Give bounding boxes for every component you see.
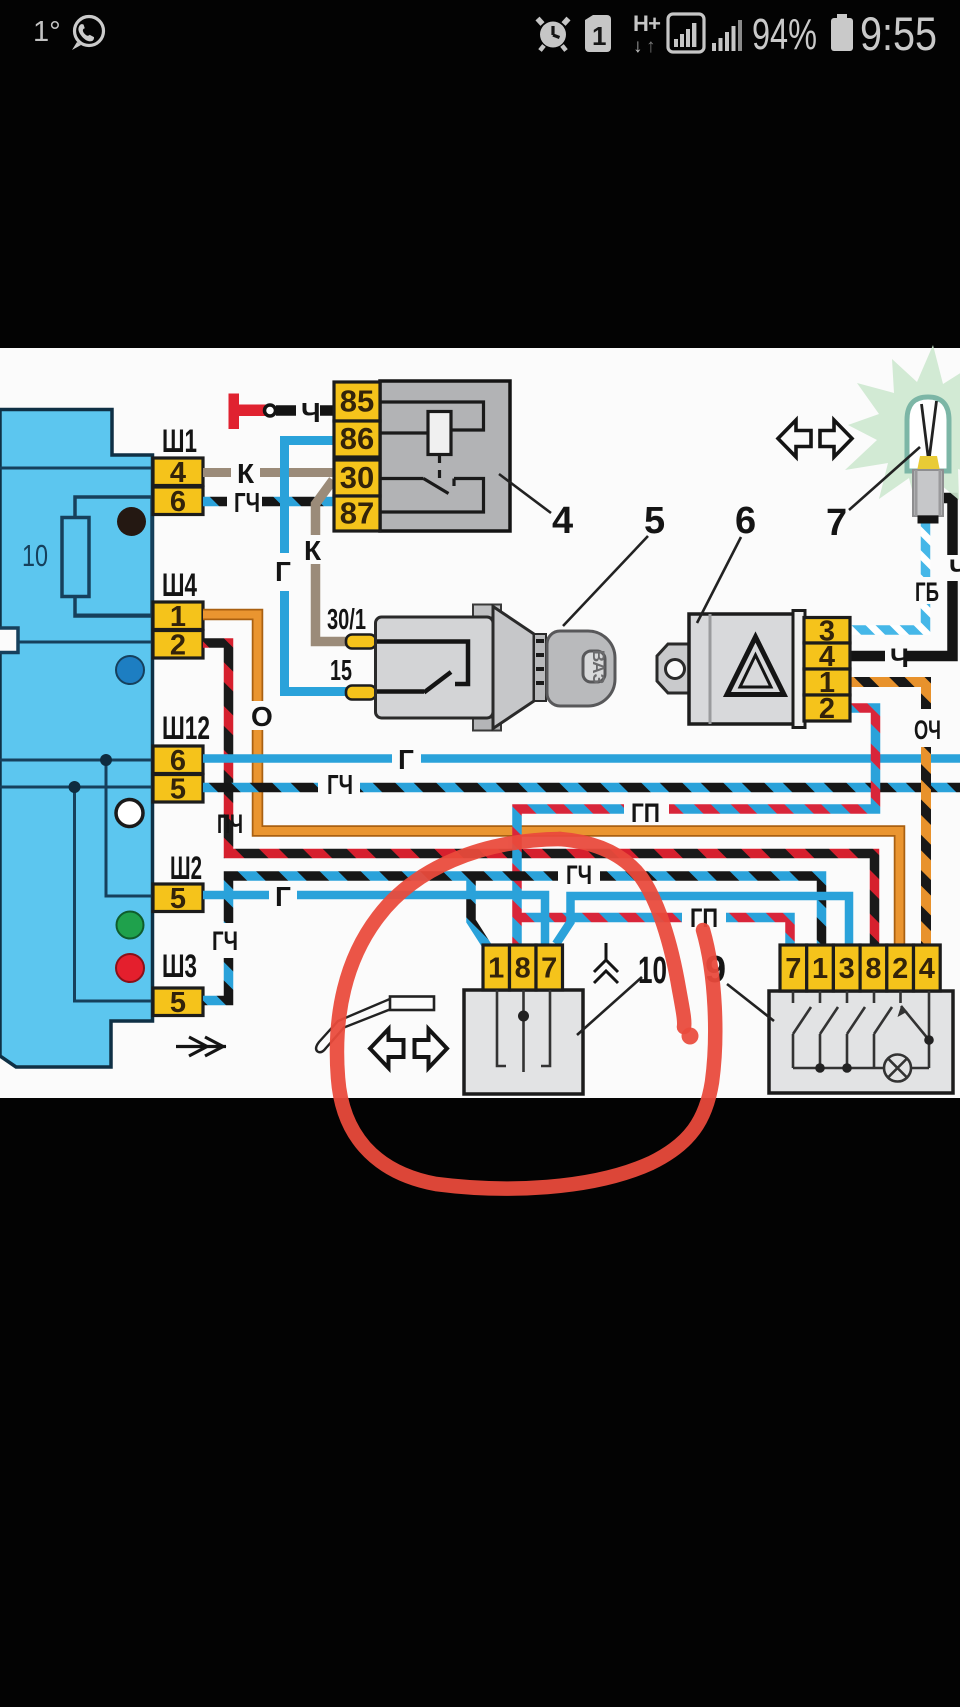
wire Ч black hazard pin4 to lamp [851,498,953,656]
turn signal switch item 10 body [464,990,583,1094]
indicator circle blue [116,656,144,684]
sw10 pin 7 [536,945,563,990]
red marker dot [682,1028,699,1045]
svg-text:7: 7 [785,953,801,985]
svg-text:3: 3 [839,953,855,985]
svg-text:Ш12: Ш12 [162,710,210,746]
connector Ш4 pin 2 [153,631,203,659]
svg-text:ГЧ: ГЧ [212,926,238,956]
lamp metal base [913,470,943,516]
exit arrow symbol bottom left [176,1037,226,1056]
svg-text:Ч: Ч [890,643,909,673]
wire Г blue Ш2-5 to sw10 pin7 [203,895,545,946]
svg-text:86: 86 [340,421,374,456]
svg-text:85: 85 [340,384,374,419]
wire ГЧ Ш12-5 long line [203,783,960,793]
svg-text:ГЧ: ГЧ [327,769,353,800]
svg-text:ГП: ГП [631,798,660,828]
wire ГЧ Ш1-6 to relay 87 [203,497,335,507]
svg-text:2: 2 [170,629,186,661]
ignition key with ВАЗ [547,631,615,706]
svg-text:ПЧ: ПЧ [217,809,243,839]
wire Г blue sw10 pin7 to relay9 pin3 [556,896,849,946]
whatsapp icon [72,17,104,51]
node junction dot A [100,754,112,766]
hazard pin 3 [804,618,850,644]
alarm clock icon [538,19,569,51]
battery icon [831,14,853,51]
wire notch to pin Ш4-2 [18,641,152,644]
boxed signal icon [668,14,704,52]
svg-text:К: К [304,535,322,566]
svg-text:ГБ: ГБ [915,577,939,607]
terminal circle [265,405,276,416]
svg-text:30: 30 [340,460,374,495]
sw10 pin 8 [510,945,537,990]
connector Ш1 pin 4 [153,458,203,486]
svg-text:2: 2 [819,693,835,725]
svg-text:1: 1 [488,953,504,985]
wire ГЧ Ш3-5 to relay9 pin1 and sw10 pin1 [203,876,822,1001]
svg-text:H+: H+ [633,11,661,36]
wire К brown relay 30 to ignition 30/1 [316,480,349,642]
leader line item 7 [849,447,920,510]
turn arrows right near lamp [820,420,852,457]
svg-text:94%: 94% [752,10,817,59]
hazard switch mounting ear [657,644,690,693]
leader line item 6 [697,537,741,623]
battery feed red T symbol [229,394,267,430]
connector Ш4 pin 1 [153,602,203,630]
svg-text:5: 5 [170,773,186,805]
relay9 pin 2 [887,945,914,991]
svg-text:Ш2: Ш2 [170,850,202,886]
indicator circle black [117,507,146,536]
sw10 contact internals [497,990,550,1072]
dimension symbol above sw10 [594,943,618,983]
svg-text:4: 4 [552,500,573,542]
svg-text:10: 10 [22,538,48,573]
connector notch on left edge [0,628,18,653]
hazard switch ear hole [666,660,685,679]
wire ГП blue-red hazard pin2 to sw10 pin8 and relay9 pin7 [517,708,876,946]
wire inner line to pin Ш4-1 [75,614,152,617]
hazard switch body [689,614,794,724]
hand-drawn red marker circle [337,839,715,1189]
leader line item 10 [577,977,642,1035]
svg-text:1: 1 [592,21,606,51]
svg-text:Ш3: Ш3 [162,948,197,984]
svg-text:Г: Г [275,556,291,587]
connector Ш1 pin 6 [153,487,203,515]
svg-text:1: 1 [812,953,828,985]
relay9 pin2 contact arrowhead [898,1006,908,1017]
wire К brown Ш1-4 to relay 30 [203,468,335,477]
wire ГБ hazard pin3 to lamp [851,520,926,630]
wire ОЧ hazard pin1 to relay9 pin4 [851,682,926,946]
wire О orange Ш4-1 to relay9 pin 2 [203,615,900,947]
node junction dot B [69,781,81,793]
svg-text:7: 7 [826,502,847,544]
svg-text:Ч: Ч [301,397,321,428]
svg-text:Г: Г [398,744,414,775]
lamp bulb glass [907,397,949,471]
lamp starburst glow [845,345,960,517]
svg-text:6: 6 [170,486,186,518]
wire junction to pin Ш2-5 [106,760,152,896]
wire Г blue Ш12-6 long line [203,754,960,763]
hazard switch face strip [793,611,805,728]
relay coil and contact internals [380,402,484,512]
relay item 4 body [380,381,510,531]
ignition switch contact internals [377,642,468,693]
svg-text:5: 5 [170,987,186,1019]
leader line item 5 [563,536,648,626]
relay pin 86 [334,421,380,457]
relay9 pin 3 [833,945,860,991]
turn signal stalk lever [316,997,434,1053]
wire ЧК black-red Ш4-2 to relay9 pin 8 [203,643,875,946]
connector Ш12 pin 5 [153,775,203,803]
wire inner line to pin Ш12-6 with junction [0,759,152,762]
diagram white sheet [0,348,960,1098]
connector Ш12 pin 6 [153,746,203,774]
fuse box (mounting block) item 10 [0,410,153,1068]
ignition switch body [376,605,547,731]
hazard triangle symbol [727,637,784,695]
fuse inner circuit rectangle [75,497,152,616]
fuse F10 [62,518,89,597]
sw10 pin 1 [483,945,510,990]
svg-text:ОЧ: ОЧ [914,715,941,745]
svg-text:2: 2 [892,953,908,985]
relay9 bus junction dots [815,1063,825,1073]
indicator circle green [117,912,144,939]
relay coil rectangle [428,412,451,455]
relay pin 87 [334,496,380,531]
relay9 pin 1 [807,945,834,991]
svg-text:ВАЗ: ВАЗ [589,650,608,684]
svg-text:↓: ↓ [633,36,643,57]
turn arrows left bottom [370,1029,404,1068]
sim card icon [585,15,611,52]
svg-text:ГЧ: ГЧ [566,860,592,890]
svg-text:30/1: 30/1 [327,604,366,636]
svg-text:87: 87 [340,496,374,531]
hazard pin 2 [804,695,850,721]
wire junction to pin Ш3-5 [75,787,153,1001]
svg-text:8: 8 [515,953,531,985]
H+ network icon [633,11,661,57]
indicator circle white [116,800,143,827]
svg-text:8: 8 [865,953,881,985]
svg-text:О: О [251,701,273,732]
ignition switch terminal 30/1 [346,635,376,649]
relay9 lamp symbol [884,1055,911,1082]
svg-text:1: 1 [170,601,186,633]
signal bars icon [712,20,742,51]
svg-text:5: 5 [644,500,665,542]
svg-text:Ч: Ч [949,554,960,584]
wire inner line to pin Ш12-5 with junction [0,786,152,789]
relay9 pin 7 [780,945,807,991]
svg-text:↑: ↑ [646,36,656,57]
svg-text:7: 7 [541,953,557,985]
wire inner line to pin Ш1-4 [0,467,152,470]
relay pin 85 [334,382,380,421]
svg-text:1°: 1° [33,16,61,48]
svg-text:Ш4: Ш4 [162,567,197,603]
turn arrows left near lamp [778,420,811,457]
wire Ч black battery to relay 85 [276,405,335,416]
svg-text:9:55: 9:55 [860,7,937,60]
svg-text:6: 6 [170,745,186,777]
svg-text:10: 10 [638,950,667,992]
svg-text:4: 4 [919,953,935,985]
svg-text:5: 5 [170,883,186,915]
lamp bulb base glow [917,456,940,471]
svg-text:Ш1: Ш1 [162,423,197,459]
svg-text:Г: Г [275,881,291,912]
svg-text:К: К [237,458,255,489]
connector Ш2 pin 5 [153,884,203,912]
hazard pin 4 [804,643,850,669]
hazard relay item 9 body [769,991,953,1093]
connector Ш3 pin 5 [153,988,203,1016]
leader line item 9 [727,984,774,1021]
leader line item 4 [499,474,551,513]
svg-text:ГЧ: ГЧ [234,487,260,518]
hazard pin 1 [804,669,850,695]
relay pin 30 [334,460,380,496]
relay9 pin 4 [914,945,941,991]
sw10 junction dot [518,1011,529,1022]
relay9 switch contacts internals [793,991,929,1068]
wire Г blue relay 86 to ignition 15 [285,441,349,692]
ignition switch terminal 15 [346,686,376,700]
svg-text:6: 6 [735,500,756,542]
hazard switch body seam [709,614,712,724]
relay9 pin 8 [860,945,887,991]
lamp base cap [918,516,939,524]
svg-text:4: 4 [170,457,186,489]
lamp filament [922,401,937,456]
svg-text:15: 15 [330,655,352,687]
indicator circle red [116,954,144,982]
turn arrows right bottom [415,1029,448,1068]
